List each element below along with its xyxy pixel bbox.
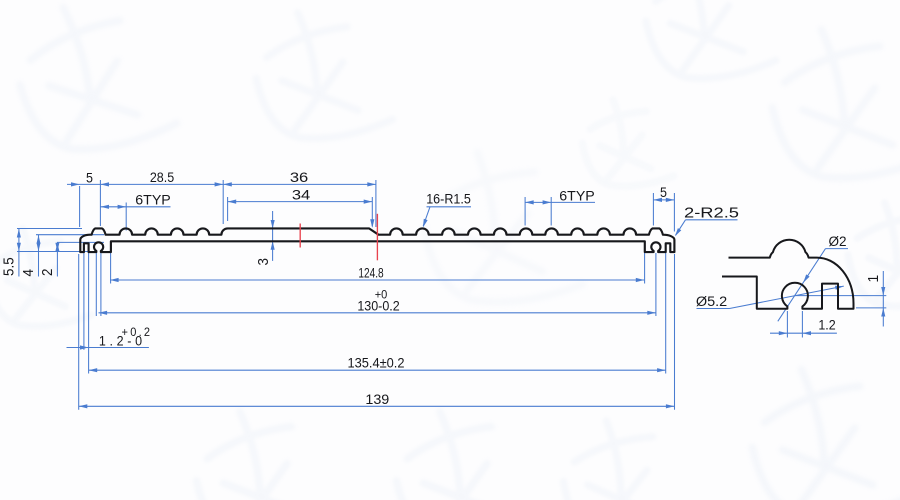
svg-text:1.2-0: 1.2-0 [99, 333, 142, 349]
svg-text:36: 36 [290, 170, 308, 186]
svg-text:28.5: 28.5 [150, 170, 174, 186]
profile outline [80, 228, 674, 252]
detail dim 1.2 [786, 311, 788, 338]
svg-text:Ø2: Ø2 [828, 234, 846, 249]
dim 1.2 +0.2/-0 (notch) [67, 347, 149, 349]
svg-text:34: 34 [292, 187, 310, 203]
svg-text:5: 5 [86, 170, 93, 186]
leader Ø5.2 [697, 308, 730, 310]
svg-text:124.8: 124.8 [358, 265, 383, 281]
dim 5.5 [18, 229, 20, 277]
leader 2-R2.5 [686, 219, 738, 221]
dim 5 right [653, 199, 674, 201]
svg-text:139: 139 [365, 392, 389, 408]
detail extension lines [795, 295, 886, 297]
svg-text:6TYP: 6TYP [135, 193, 170, 209]
dim 4 [38, 235, 40, 277]
detail dim 1 [882, 271, 884, 327]
dim 34 [228, 201, 373, 203]
dim 130 +0/-0.2 [99, 312, 656, 314]
svg-text:5.5: 5.5 [0, 257, 17, 276]
extension lines: left height dims [17, 228, 82, 230]
svg-text:Ø5.2: Ø5.2 [696, 294, 727, 309]
dim 139 [79, 405, 675, 407]
svg-text:4: 4 [19, 269, 36, 277]
svg-text:135.4±0.2: 135.4±0.2 [347, 355, 404, 371]
detail view outline [722, 240, 854, 309]
dim 5 left [67, 183, 100, 185]
svg-text:6TYP: 6TYP [559, 189, 594, 205]
dim 3 (mid) [272, 211, 274, 261]
leader Ø2 [826, 248, 849, 250]
dim 36 [223, 183, 376, 185]
leader 16-R1.5 [427, 206, 472, 208]
svg-text:130-0.2: 130-0.2 [357, 298, 399, 314]
dim 124.8 [110, 279, 644, 281]
svg-text:1: 1 [865, 275, 882, 283]
svg-text:2-R2.5: 2-R2.5 [684, 206, 739, 222]
svg-text:3: 3 [254, 258, 271, 266]
svg-text:1.2: 1.2 [818, 317, 835, 333]
svg-text:2: 2 [38, 268, 55, 276]
bottom extension verticals [78, 254, 80, 410]
red centerline marks [299, 224, 301, 248]
top vertical extension lines [79, 186, 81, 227]
svg-text:5: 5 [660, 185, 667, 201]
dim 2 [56, 242, 58, 276]
dim 28.5 [100, 183, 223, 185]
dim 6TYP left [100, 206, 170, 208]
dim 135.4±0.2 [89, 369, 666, 371]
dim 6TYP right [525, 201, 595, 203]
svg-text:16-R1.5: 16-R1.5 [426, 191, 471, 206]
